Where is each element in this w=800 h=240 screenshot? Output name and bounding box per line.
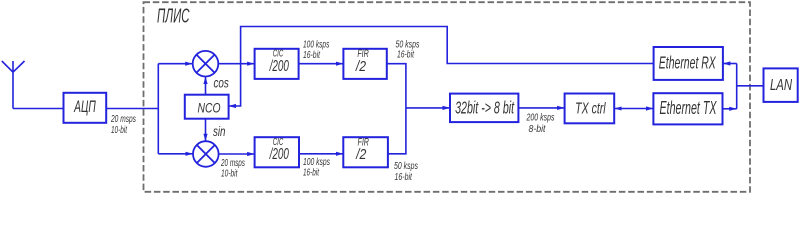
wire lower CIC to lower FIR (299, 153, 343, 155)
svg-text:10-bit: 10-bit (221, 167, 238, 179)
svg-text:100 ksps: 100 ksps (303, 156, 330, 168)
label TX ctrl (575, 99, 606, 117)
block FIR /2 lower (343, 137, 388, 167)
label 16-bit lower CIC (303, 167, 320, 178)
svg-text:АЦП: АЦП (73, 96, 96, 115)
wire rail to lower mixer (158, 153, 193, 155)
svg-text:ПЛИС: ПЛИС (157, 5, 190, 27)
wire NCO sin output to lower mixer (205, 119, 207, 142)
label cos (214, 75, 229, 91)
block TX ctrl (565, 94, 615, 124)
wire TX ctrl to Ethernet TX bidirectional (614, 108, 653, 110)
label 16-bit upper CIC (303, 49, 321, 61)
block CIC /200 lower (255, 137, 299, 167)
mixer upper (multiplier) (193, 51, 219, 77)
svg-text:Ethernet TX: Ethernet TX (660, 99, 718, 118)
label /2 upper (355, 58, 366, 75)
label 20 msps lower (220, 158, 245, 169)
antenna (2, 61, 25, 109)
svg-text:/200: /200 (269, 56, 290, 74)
label CIC upper (273, 48, 284, 59)
label CIC lower (273, 137, 284, 148)
label 50 ksps lower (394, 160, 419, 171)
wire 32bit block to TX ctrl (518, 107, 564, 109)
block LAN (764, 68, 798, 102)
wire vertical split rail (157, 64, 159, 154)
label /2 lower (355, 146, 366, 163)
svg-text:16-bit: 16-bit (303, 49, 321, 61)
label FIR lower (358, 136, 370, 148)
svg-text:TX ctrl: TX ctrl (575, 99, 606, 117)
wire NCO cos output to upper mixer (205, 77, 207, 95)
svg-text:20 msps: 20 msps (110, 113, 136, 125)
label АЦП (73, 96, 96, 115)
svg-text:/2: /2 (355, 146, 366, 163)
svg-text:16-bit: 16-bit (397, 48, 415, 60)
block АЦП (ADC) (64, 93, 107, 123)
svg-text:16-bit: 16-bit (303, 167, 320, 178)
svg-text:16-bit: 16-bit (395, 171, 413, 182)
wire Ethernet RX output to NCO control (229, 27, 654, 107)
label /200 upper (269, 56, 290, 74)
label 100 ksps lower (303, 156, 330, 168)
wire upper CIC to FIR (299, 63, 344, 65)
svg-text:cos: cos (214, 75, 229, 91)
wire lower mixer to lower CIC (219, 153, 255, 155)
label sin (213, 123, 226, 139)
label 16-bit lower FIR (395, 171, 413, 182)
label 16-bit upper FIR (397, 48, 415, 60)
mixer lower (multiplier) (193, 141, 219, 167)
block FIR /2 upper (343, 49, 386, 79)
block 32bit to 8 bit (450, 94, 518, 123)
block CIC /200 upper (255, 49, 299, 79)
svg-text:/2: /2 (355, 58, 366, 75)
svg-text:Ethernet RX: Ethernet RX (659, 54, 717, 74)
wire LAN to junction (737, 85, 764, 87)
label 100 ksps upper (303, 38, 329, 50)
label 10-bit after ADC (111, 125, 128, 136)
wire lower FIR output up to junction (388, 108, 406, 154)
svg-text:sin: sin (213, 123, 226, 139)
label /200 lower (269, 145, 290, 163)
svg-text:200 ksps: 200 ksps (526, 111, 555, 122)
label 8-bit (529, 123, 546, 134)
wire junction to Ethernet RX (723, 63, 737, 65)
wire rail to upper mixer (158, 63, 192, 65)
label 32bit to 8 bit (455, 99, 515, 118)
label ПЛИС (157, 5, 190, 27)
svg-text:8-bit: 8-bit (529, 123, 546, 134)
svg-text:50 ksps: 50 ksps (394, 160, 419, 171)
block Ethernet TX (653, 93, 722, 124)
label FIR upper (357, 47, 369, 59)
label 20 msps after ADC (110, 113, 136, 125)
label LAN (770, 76, 792, 93)
svg-text:/200: /200 (269, 145, 290, 163)
label Ethernet RX (659, 54, 717, 74)
wire Ethernet TX to LAN junction (723, 108, 737, 110)
wire LAN junction vertical (736, 64, 738, 109)
block NCO (185, 95, 229, 119)
label 10-bit lower (221, 167, 238, 179)
label 50 ksps upper (396, 38, 421, 49)
block Ethernet RX (654, 47, 723, 80)
wire ADC output to split rail (106, 108, 158, 110)
wire antenna to ADC (13, 108, 64, 110)
svg-text:NCO: NCO (198, 100, 221, 116)
dashed FPGA boundary box ПЛИС (144, 2, 751, 192)
wire junction to 32bit block (406, 107, 450, 109)
svg-text:LAN: LAN (770, 76, 792, 93)
label 200 ksps (526, 111, 555, 122)
label NCO (198, 100, 221, 116)
svg-text:10-bit: 10-bit (111, 125, 128, 136)
label Ethernet TX (660, 99, 718, 118)
wire upper FIR output down to junction (387, 64, 406, 108)
wire upper mixer to CIC (218, 63, 254, 65)
svg-text:32bit -> 8 bit: 32bit -> 8 bit (455, 99, 515, 118)
